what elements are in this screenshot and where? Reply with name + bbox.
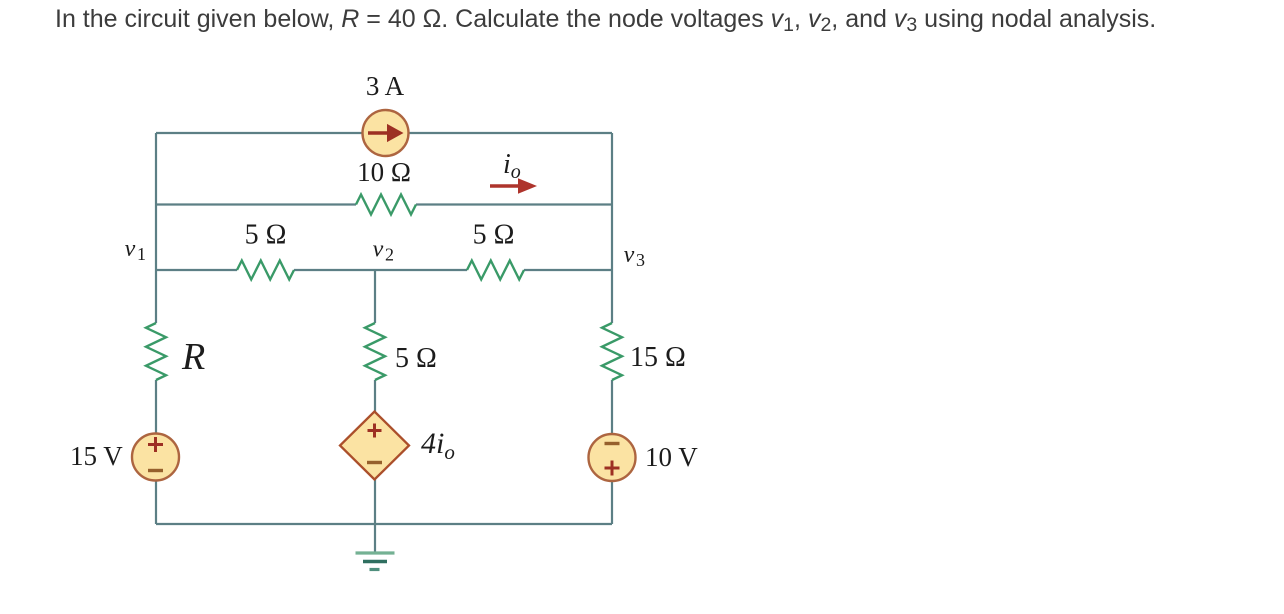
svg-text:10 Ω: 10 Ω bbox=[357, 157, 411, 187]
svg-text:15 V: 15 V bbox=[70, 441, 123, 471]
svg-text:v: v bbox=[125, 236, 136, 262]
svg-text:3 A: 3 A bbox=[366, 71, 405, 101]
svg-text:R: R bbox=[181, 336, 205, 378]
svg-text:3: 3 bbox=[636, 250, 645, 270]
svg-text:v: v bbox=[624, 242, 635, 268]
svg-text:v: v bbox=[373, 237, 384, 263]
svg-text:2: 2 bbox=[385, 245, 394, 265]
svg-text:5 Ω: 5 Ω bbox=[245, 220, 287, 251]
svg-text:io: io bbox=[503, 149, 521, 183]
svg-text:4io: 4io bbox=[421, 427, 455, 464]
svg-text:5 Ω: 5 Ω bbox=[473, 220, 515, 251]
svg-text:5 Ω: 5 Ω bbox=[395, 343, 437, 374]
svg-text:1: 1 bbox=[137, 244, 146, 264]
svg-text:15 Ω: 15 Ω bbox=[630, 342, 686, 373]
svg-text:10 V: 10 V bbox=[645, 442, 698, 472]
